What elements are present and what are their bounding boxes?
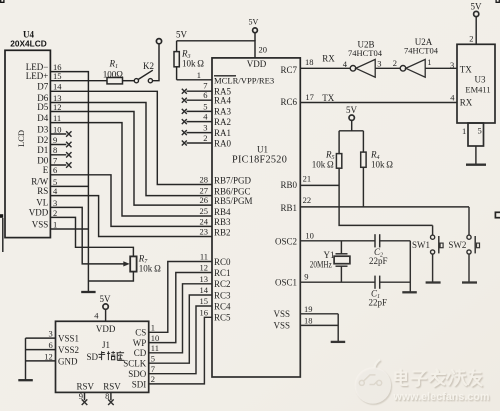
X mark RA5 <box>182 89 187 94</box>
wire VSS1 pin3 <box>26 337 56 339</box>
border mark right edge <box>495 212 500 217</box>
crystal Y1 top lead <box>340 241 342 254</box>
CJK watermark glyph zi <box>412 372 427 386</box>
wire branch to R5 <box>338 131 340 154</box>
op-amp U2A inverter bubble <box>400 66 406 72</box>
stub LCD pin10 D3 n.c. <box>50 133 66 135</box>
ground U1 VSS <box>331 341 346 343</box>
X mark pin8 <box>66 152 71 157</box>
wire branch to R4 <box>362 131 364 152</box>
stub LCD pin8 D1 n.c. <box>50 154 66 156</box>
wire VSS18 to ground <box>300 324 338 326</box>
X mark RA1 <box>182 130 187 135</box>
X mark RA2 <box>182 119 187 124</box>
wire J1 ground rail <box>25 338 27 379</box>
5V terminal circle SD card <box>103 304 108 309</box>
stub RA0 n.c. <box>187 142 213 144</box>
connector J1 SD card socket box <box>56 321 149 392</box>
CJK glyph ka <box>98 351 105 360</box>
CJK watermark glyph you <box>468 370 482 386</box>
wire R3 bottom to pin1 row <box>176 67 178 80</box>
switch SW1 actuator nub <box>440 243 443 248</box>
switch SW2 top lead <box>468 207 470 235</box>
border corner mark top-right <box>496 0 499 2</box>
wire RB0 to R5 bottom <box>300 184 339 186</box>
5V terminal circle R5/R4 <box>349 115 354 120</box>
wire U2A input to U3 TX <box>425 67 457 69</box>
wire LCD pin4 RS to RB2 <box>50 196 212 237</box>
border corner mark top-left <box>1 0 4 2</box>
CJK watermark glyph shao <box>447 370 466 385</box>
capacitor C1 plates <box>374 276 376 289</box>
switch SW2 top contact <box>467 235 471 239</box>
wire LCD pin14 D7 to RB7 <box>50 91 212 184</box>
CJK glyph cha <box>107 351 115 360</box>
wire RC1 to SD WP <box>149 273 212 343</box>
op-amp U2B inverter bubble <box>350 66 356 72</box>
X mark pin7 <box>66 162 71 167</box>
X mark RSV8 <box>108 399 114 405</box>
5V terminal circle VDD rail <box>253 28 258 33</box>
X mark RA0 <box>182 141 187 146</box>
crystal Y1 bottom lead <box>340 266 342 282</box>
ground oscillator rail <box>402 291 417 293</box>
switch SW2 bottom contact <box>467 250 471 254</box>
wire 5V to SD VDD pin4 <box>105 309 107 321</box>
J1 RSV pin8 stub <box>110 392 112 400</box>
switch SW1 bottom lead <box>432 254 434 281</box>
op-amp U2B inverter triangle <box>356 59 375 77</box>
capacitor C2 plates <box>374 234 376 247</box>
X mark RA3 <box>182 109 187 114</box>
wire LCD pin2 VDD to R7 top <box>50 217 133 256</box>
wire K2 to 5V terminal <box>153 44 160 81</box>
ground SW1 <box>426 281 441 283</box>
resistor R5 body <box>336 154 341 169</box>
wire RC4 to SD SDO <box>149 306 212 374</box>
crystal Y1 body <box>334 256 350 264</box>
wire R3 to pin1 <box>177 79 212 81</box>
wire U3 tab to ground <box>475 146 477 165</box>
wire 5V to U3 pin2 <box>475 17 477 45</box>
stub LCD pin9 D2 n.c. <box>50 144 66 146</box>
switch SW1 bottom contact <box>431 250 435 254</box>
wire VSS rail down <box>337 314 339 342</box>
5V terminal circle U3 <box>474 11 479 16</box>
wire R5 bottom through junction down to SW1 <box>339 168 433 225</box>
ground J1 <box>18 379 33 381</box>
switch K2 lever <box>138 70 153 79</box>
switch SW1 top contact <box>431 235 435 239</box>
resistor R4 body <box>361 152 366 167</box>
potentiometer R7 body <box>130 256 136 271</box>
5V terminal circle at K2 <box>156 39 161 44</box>
wire GND pin12 <box>26 360 56 362</box>
stub RA5 n.c. <box>187 90 213 92</box>
wire 5V rail to VDD pin 20 <box>177 41 255 58</box>
op U1 PIC18F2520 box <box>212 58 300 377</box>
wire LCD pin16 LED- to ground rail <box>50 72 88 292</box>
wire RB1 to R4 bottom and SW2 <box>300 206 469 208</box>
LCD U4 box <box>5 50 50 237</box>
wire RC7 to U2B output <box>300 67 350 69</box>
CJK glyph zuo <box>117 351 125 360</box>
J1 name label SD card socket (SD + CJK) <box>87 351 125 362</box>
switch SW1 top lead <box>432 225 434 235</box>
crystal Y1 top plate <box>336 253 348 255</box>
wire OSC2 to C2 <box>300 240 375 242</box>
GPS module U3 EM411 box <box>457 44 495 123</box>
J1 RSV pin9 stub <box>84 392 86 400</box>
U3 bottom tab <box>468 123 484 146</box>
stub LCD pin7 D0 n.c. <box>50 164 66 166</box>
wire LCD pin15 LED+ to R1 <box>50 80 107 82</box>
X mark pin9 <box>66 142 71 147</box>
wire RC6 to U3 RX <box>300 102 457 104</box>
stub RA4 n.c. <box>187 99 213 101</box>
wire RC0 to SD CS <box>149 262 212 333</box>
X mark pin10 <box>66 131 71 136</box>
wire C2 to right rail <box>380 240 411 242</box>
wire LCD pin12 D5 to RB5 <box>50 112 212 206</box>
crystal Y1 bottom plate <box>336 265 348 267</box>
wire R4 bottom lead <box>362 167 364 207</box>
wire LCD pin6 E to RB3 <box>50 175 212 227</box>
switch SW2 bottom lead <box>468 254 470 281</box>
watermark logo circle <box>355 360 391 404</box>
R7 wiper arrowhead <box>123 261 130 266</box>
wire 5V to R5/R4 branch <box>351 120 353 130</box>
ground (LCD/pot rail) <box>81 291 95 293</box>
wire 5V circle to rail <box>254 33 256 41</box>
wire OSC1 to C1 <box>300 281 375 283</box>
wire U2B input to U2A output <box>375 67 400 69</box>
wire R1 to K2 <box>123 80 135 82</box>
stub RA2 n.c. <box>187 121 213 123</box>
stub RA3 n.c. <box>187 110 213 112</box>
wire VSS19 to ground <box>300 313 338 315</box>
switch SW2 actuator nub <box>477 243 480 248</box>
op-amp U2A inverter triangle <box>406 59 425 77</box>
border mark left edge <box>0 214 3 218</box>
switch K2 right contact <box>148 79 152 83</box>
wire RC2 to SD CD <box>149 284 212 353</box>
border edge faint line left <box>2 218 4 252</box>
switch SW2 actuator bar <box>474 236 476 253</box>
ground SW2 <box>462 281 477 283</box>
wire LCD pin13 D6 to RB6 <box>50 103 212 196</box>
wire C1 to right rail <box>380 281 411 283</box>
potentiometer R7 bottom lead <box>88 272 133 281</box>
wire RC5 to SD SDI <box>149 317 212 384</box>
ground U3 <box>466 164 486 166</box>
CJK watermark glyph dian <box>396 370 407 386</box>
wire branch rail R5/R4 <box>339 130 363 132</box>
stub RA1 n.c. <box>187 132 213 134</box>
wire 5V rail down to R3 <box>176 41 178 52</box>
X mark RSV9 <box>82 399 88 405</box>
wire LCD pin5 R/W to ground rail <box>50 185 88 187</box>
watermark logo inner traces <box>359 375 381 386</box>
resistor R1 body <box>107 78 123 84</box>
switch SW1 actuator bar <box>438 236 440 253</box>
CJK watermark glyph fa <box>430 370 445 387</box>
watermark text dianzifashaoyou <box>396 370 482 387</box>
resistor R3 body <box>174 52 179 67</box>
wire RC3 to SD SCLK <box>149 295 212 363</box>
wire LCD pin3 VL to R7 wiper <box>50 207 125 264</box>
switch K2 left contact <box>134 79 138 83</box>
wire LCD pin1 VSS to ground rail <box>50 228 88 230</box>
X mark RA4 <box>182 98 187 103</box>
wire LCD pin11 D4 to RB4 <box>50 123 212 216</box>
wire oscillator right rail to ground <box>409 241 411 292</box>
wire VSS2 pin6 <box>26 349 56 351</box>
